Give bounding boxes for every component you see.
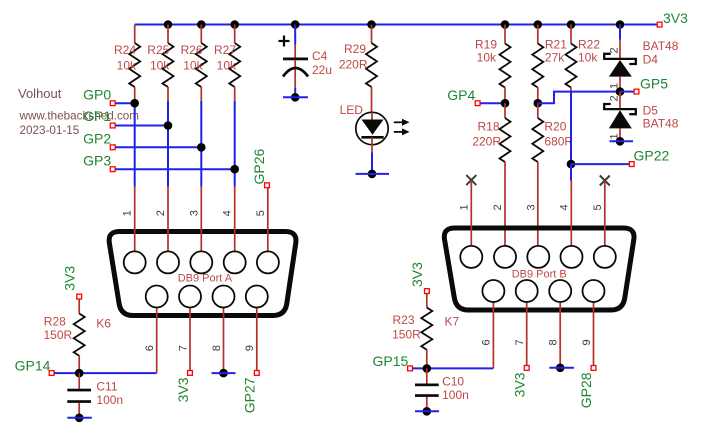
- svg-text:5: 5: [592, 204, 604, 210]
- capacitor C10: [415, 368, 469, 411]
- pin K7-2: [494, 246, 516, 268]
- resistor R22: [566, 25, 601, 93]
- pin K6-7: [189, 308, 191, 371]
- port GP3 square: [110, 167, 115, 172]
- node pin8 junction: [219, 369, 228, 378]
- pin K6-4: [234, 187, 236, 252]
- no-connect X pin B1: [466, 175, 476, 185]
- resistor R20: [532, 103, 573, 246]
- pin K7-3: [527, 246, 549, 268]
- resistor R24: [114, 25, 140, 102]
- svg-text:680R: 680R: [544, 135, 573, 149]
- svg-text:K7: K7: [445, 315, 460, 329]
- port GP0 square: [110, 101, 115, 106]
- svg-text:10k: 10k: [217, 59, 237, 73]
- pin K7-1: [470, 180, 472, 246]
- port GP1 square: [110, 123, 115, 128]
- pin K7-4: [570, 180, 572, 246]
- svg-text:R25: R25: [147, 43, 169, 57]
- port pin7 3V3 square: [188, 371, 193, 376]
- wire pin8 stub: [212, 372, 236, 374]
- svg-text:7: 7: [514, 339, 526, 345]
- port pin B7 3V3 square: [524, 366, 529, 371]
- wire D5 anode stub: [610, 140, 634, 142]
- pin K6-9: [256, 308, 258, 371]
- svg-text:1: 1: [122, 210, 134, 216]
- node 3V3 rail junction R26: [197, 20, 206, 29]
- node GP2 junction: [197, 143, 206, 152]
- wire GP2: [116, 146, 202, 148]
- port GP27 square: [254, 371, 259, 376]
- svg-text:100n: 100n: [442, 388, 469, 402]
- svg-text:R24: R24: [114, 43, 136, 57]
- node GP14 junction R28 C11: [75, 369, 84, 378]
- svg-text:27k: 27k: [545, 51, 565, 65]
- svg-text:R29: R29: [344, 42, 366, 56]
- node R21 R20 junction: [534, 99, 543, 108]
- node 3V3 rail junction R29: [367, 20, 376, 29]
- connector K7 DB9 Port B outline: [444, 228, 634, 310]
- wire GP3: [116, 168, 235, 170]
- svg-text:LED: LED: [340, 103, 364, 117]
- node GP5 junction: [616, 87, 625, 96]
- wire LED bottom: [371, 152, 373, 174]
- node 3V3 rail junction R22: [567, 20, 576, 29]
- wire GP14 to pin 6: [54, 372, 157, 374]
- wire GP15 to pin B6: [413, 367, 494, 369]
- port GP28 square: [591, 366, 596, 371]
- diode D4 BAT48: [604, 25, 679, 92]
- svg-text:4: 4: [559, 204, 571, 210]
- port GP14 square: [49, 371, 54, 376]
- node 3V3 rail junction R27: [230, 20, 239, 29]
- wire GP22: [571, 163, 629, 165]
- svg-text:Volhout: Volhout: [18, 86, 62, 101]
- svg-text:2: 2: [608, 95, 620, 101]
- resistor R21: [532, 25, 567, 104]
- pin K7-6: [492, 302, 494, 368]
- svg-text:GP0: GP0: [83, 86, 111, 102]
- node D5 anode junction: [616, 137, 625, 146]
- svg-text:100n: 100n: [96, 393, 123, 407]
- svg-text:9: 9: [581, 339, 593, 345]
- resistor R18: [472, 103, 510, 246]
- node 3V3 rail junction C4: [291, 20, 300, 29]
- wire 3V3 top rail: [135, 24, 658, 26]
- wire net GP0 vertical: [134, 101, 136, 187]
- port GP22 square: [629, 162, 634, 167]
- svg-text:10k: 10k: [477, 51, 497, 65]
- svg-text:8: 8: [548, 339, 560, 345]
- svg-text:GP14: GP14: [15, 358, 51, 374]
- svg-text:3V3: 3V3: [663, 10, 688, 26]
- wire net R22 to GP22 vertical: [570, 92, 572, 180]
- svg-text:GP1: GP1: [83, 108, 111, 124]
- svg-text:R19: R19: [475, 38, 497, 52]
- svg-text:2: 2: [155, 210, 167, 216]
- svg-text:150R: 150R: [44, 328, 73, 342]
- pin K7-7: [526, 302, 528, 365]
- svg-text:6: 6: [481, 339, 493, 345]
- node GP3 junction: [230, 165, 239, 174]
- svg-text:R27: R27: [214, 43, 236, 57]
- node GP0 junction: [130, 99, 139, 108]
- resistor R27: [214, 25, 240, 102]
- svg-text:GP2: GP2: [83, 131, 111, 147]
- svg-text:D4: D4: [643, 53, 659, 67]
- node GP1 junction: [164, 121, 173, 130]
- node GP15 junction R23 C10: [423, 364, 432, 373]
- port GP2 square: [110, 145, 115, 150]
- svg-text:R28: R28: [44, 314, 66, 328]
- wire GP5 net from R21 junction: [538, 92, 616, 104]
- svg-text:10k: 10k: [183, 59, 203, 73]
- pin K6-5: [267, 188, 269, 251]
- svg-text:C10: C10: [442, 375, 464, 389]
- node C4 bottom junction: [291, 93, 300, 102]
- no-connect X pin B5: [600, 176, 610, 186]
- svg-text:GP22: GP22: [634, 147, 670, 163]
- svg-text:4: 4: [222, 210, 234, 216]
- pin K6-8: [223, 308, 225, 374]
- wire pin B8 stub: [549, 367, 574, 369]
- port 3V3 square at R28: [77, 294, 82, 299]
- resistor R25: [147, 25, 173, 102]
- svg-text:1: 1: [458, 204, 470, 210]
- svg-text:C4: C4: [312, 49, 328, 63]
- svg-text:BAT48: BAT48: [643, 117, 679, 131]
- svg-text:GP5: GP5: [640, 76, 668, 92]
- wire net GP2 vertical: [200, 101, 202, 187]
- svg-text:3V3: 3V3: [61, 266, 77, 291]
- diode D5 BAT48: [604, 92, 679, 142]
- capacitor C11: [67, 373, 123, 418]
- port 3V3 square at R23: [425, 289, 430, 294]
- wire net GP3 vertical: [234, 101, 236, 187]
- svg-text:3V3: 3V3: [409, 262, 425, 287]
- svg-text:9: 9: [244, 345, 256, 351]
- node 3V3 rail junction R21: [534, 20, 543, 29]
- svg-text:R21: R21: [545, 38, 567, 52]
- resistor R23: [392, 294, 432, 369]
- svg-text:DB9 Port B: DB9 Port B: [512, 269, 567, 281]
- svg-text:220R: 220R: [339, 58, 368, 72]
- wire C4 bottom stub: [283, 96, 308, 98]
- wire GP22 net to pin B4: [570, 164, 572, 180]
- svg-text:K6: K6: [96, 316, 111, 330]
- svg-text:R23: R23: [392, 313, 414, 327]
- svg-text:8: 8: [211, 345, 223, 351]
- node C11 bottom junction: [75, 414, 84, 423]
- svg-text:GP3: GP3: [83, 152, 111, 168]
- svg-text:3V3: 3V3: [175, 377, 191, 402]
- node LED bottom junction: [368, 170, 377, 179]
- node 3V3 rail junction D4: [616, 20, 625, 29]
- capacitor C4: [279, 25, 333, 98]
- svg-text:GP27: GP27: [241, 377, 257, 413]
- node GP4 junction R19 R18: [501, 99, 510, 108]
- pin K6-2: [167, 187, 169, 252]
- svg-text:6: 6: [144, 345, 156, 351]
- svg-text:3V3: 3V3: [511, 372, 527, 397]
- port GP5 square: [634, 89, 639, 94]
- svg-text:7: 7: [177, 345, 189, 351]
- port GP26 square: [265, 183, 270, 188]
- svg-text:R18: R18: [477, 120, 499, 134]
- wire LED bottom stub: [356, 173, 390, 175]
- connector K6 DB9 Port A outline: [109, 232, 296, 316]
- svg-text:3: 3: [525, 204, 537, 210]
- pin K6-1: [134, 187, 136, 252]
- node C10 bottom junction: [423, 407, 432, 416]
- svg-text:GP4: GP4: [447, 87, 475, 103]
- svg-text:2: 2: [492, 204, 504, 210]
- wire net GP1 vertical: [167, 101, 169, 187]
- resistor R26: [181, 25, 207, 102]
- wire C10 bottom stub: [415, 410, 439, 412]
- wire GP0: [116, 102, 135, 104]
- svg-text:D5: D5: [643, 104, 659, 118]
- svg-text:DB9 Port A: DB9 Port A: [178, 273, 233, 285]
- svg-text:220R: 220R: [472, 135, 501, 149]
- svg-text:R22: R22: [578, 38, 600, 52]
- pin K7-8: [559, 302, 561, 368]
- node 3V3 rail junction R25: [164, 20, 173, 29]
- svg-text:GP15: GP15: [373, 353, 409, 369]
- svg-text:BAT48: BAT48: [643, 39, 679, 53]
- pin K6-6: [156, 308, 158, 373]
- svg-text:GP26: GP26: [251, 148, 267, 184]
- svg-text:GP28: GP28: [578, 372, 594, 408]
- node pin B8 junction: [556, 364, 565, 373]
- svg-text:10k: 10k: [117, 59, 137, 73]
- svg-text:5: 5: [255, 210, 267, 216]
- svg-text:10k: 10k: [578, 51, 598, 65]
- LED D (LED1): [340, 103, 410, 152]
- svg-text:2: 2: [608, 47, 620, 53]
- wire GP5 stub: [620, 91, 634, 93]
- pin K6-3: [200, 187, 202, 252]
- pin K7-9: [593, 302, 595, 365]
- port 3V3 square: [657, 22, 662, 27]
- pin K7-5: [604, 181, 606, 246]
- port GP15 square: [408, 366, 413, 371]
- node 3V3 rail junction R19: [501, 20, 510, 29]
- svg-text:150R: 150R: [392, 328, 421, 342]
- resistor R19: [475, 25, 511, 104]
- svg-text:10k: 10k: [150, 59, 170, 73]
- svg-text:2023-01-15: 2023-01-15: [20, 124, 80, 137]
- svg-text:3: 3: [188, 210, 200, 216]
- wire GP1: [116, 125, 169, 127]
- svg-text:www.thebackshed.com: www.thebackshed.com: [19, 110, 140, 123]
- svg-text:R26: R26: [181, 43, 203, 57]
- resistor R28: [44, 299, 85, 373]
- svg-text:22u: 22u: [312, 63, 332, 77]
- wire C11 bottom stub: [67, 417, 92, 419]
- resistor R29: [339, 25, 377, 113]
- wire GP4: [480, 102, 505, 104]
- svg-text:C11: C11: [96, 380, 117, 394]
- node GP22 junction: [567, 160, 576, 169]
- svg-text:R20: R20: [544, 120, 566, 134]
- port GP4 square: [475, 101, 480, 106]
